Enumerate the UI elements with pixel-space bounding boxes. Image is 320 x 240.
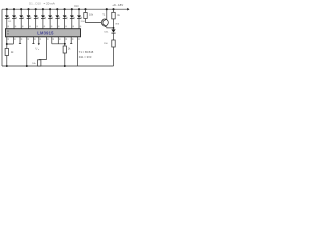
svg-text:10k: 10k — [32, 63, 36, 65]
svg-text:T1: T1 — [102, 13, 106, 16]
svg-text:1k: 1k — [68, 48, 71, 51]
svg-text:1k: 1k — [117, 14, 120, 17]
svg-text:3V3: 3V3 — [115, 23, 120, 25]
svg-text:D1...D10: D1...D10 — [29, 2, 41, 6]
svg-text:D1: D1 — [8, 21, 12, 23]
svg-text:+9...18V: +9...18V — [112, 3, 123, 7]
svg-text:D10: D10 — [74, 5, 79, 8]
svg-text:D11 = 3V3: D11 = 3V3 — [79, 55, 92, 59]
svg-text:150: 150 — [104, 43, 108, 45]
svg-text:10k: 10k — [89, 14, 94, 17]
svg-text:1k: 1k — [11, 51, 14, 54]
svg-text:D10: D10 — [81, 21, 86, 23]
svg-text:D11: D11 — [105, 32, 110, 34]
svg-text:e: e — [38, 49, 39, 51]
svg-text:= 20 mA: = 20 mA — [44, 2, 55, 6]
svg-text:T1 = BC548: T1 = BC548 — [79, 50, 94, 54]
svg-text:LM3915: LM3915 — [37, 30, 54, 35]
